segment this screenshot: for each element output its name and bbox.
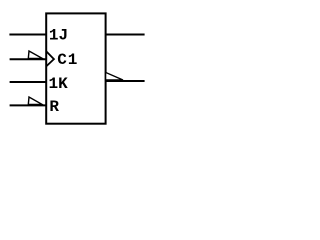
svg-text:C1: C1 bbox=[57, 51, 78, 69]
svg-text:1J: 1J bbox=[49, 27, 68, 45]
svg-text:R: R bbox=[49, 98, 59, 116]
svg-text:1K: 1K bbox=[49, 75, 69, 93]
